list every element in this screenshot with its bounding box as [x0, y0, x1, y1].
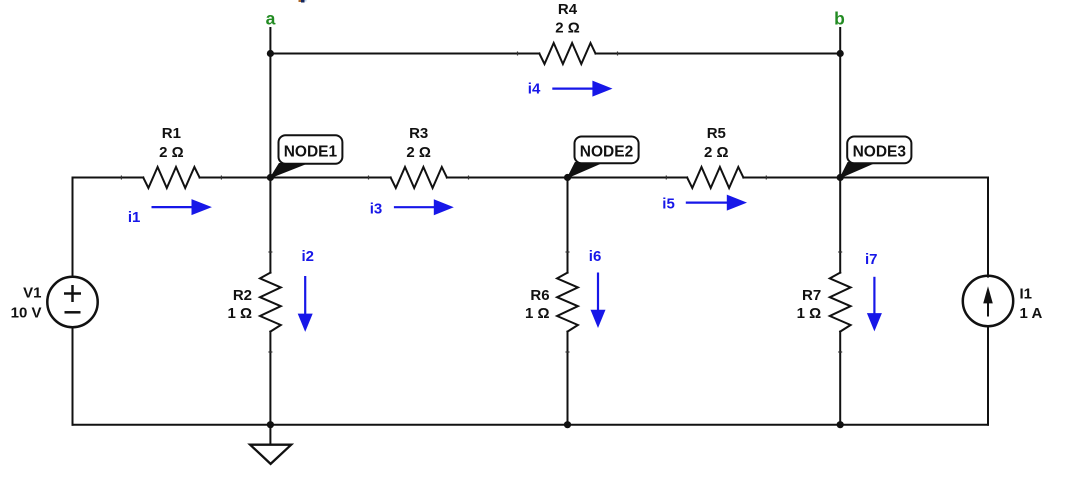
svg-text:R1: R1	[162, 125, 181, 142]
wire: right branch down to I1	[987, 178, 989, 277]
junction node a	[267, 50, 274, 57]
wire: main line left	[73, 177, 144, 179]
resistor R2	[260, 273, 281, 332]
wire: b stub	[839, 28, 841, 54]
svg-text:i1: i1	[128, 209, 141, 226]
cursor fragment top edge	[299, 0, 302, 2]
current arrow i1	[128, 199, 212, 226]
junction bottom NODE2 branch	[564, 421, 571, 428]
junction bottom ground	[267, 421, 274, 428]
svg-text:2 Ω: 2 Ω	[704, 144, 729, 161]
wire: R6 to bottom rail	[567, 332, 569, 425]
resistor R4	[539, 43, 595, 64]
svg-text:a: a	[266, 9, 276, 29]
current source I1	[963, 276, 1013, 326]
svg-text:R4: R4	[558, 1, 578, 18]
wire: R2 to bottom rail	[269, 332, 271, 425]
svg-text:1 A: 1 A	[1020, 305, 1043, 322]
voltage source V1	[47, 277, 97, 327]
NODE2 callout	[568, 163, 603, 178]
resistor R1	[143, 167, 199, 188]
svg-text:V1: V1	[23, 285, 41, 302]
svg-text:b: b	[834, 9, 845, 29]
junction node b	[837, 50, 844, 57]
svg-text:i5: i5	[662, 196, 675, 213]
svg-text:I1: I1	[1020, 286, 1033, 303]
current arrow i7	[865, 251, 882, 331]
wire: top left segment a to R4	[270, 53, 539, 55]
wire: R7 to bottom rail	[839, 332, 841, 425]
wire: V1 bottom to bottom rail	[72, 327, 74, 424]
wire: NODE1 down to R2	[269, 178, 271, 273]
wire: ground stub	[269, 425, 271, 445]
svg-text:1 Ω: 1 Ω	[525, 305, 550, 322]
NODE1 callout	[270, 164, 306, 178]
wire: a down to NODE1	[269, 54, 271, 178]
wire: bottom rail	[73, 424, 989, 426]
current arrow i4	[528, 81, 613, 98]
wire: top right segment R4 to b	[596, 53, 841, 55]
wire: R5 to NODE3 and right corner	[743, 177, 988, 179]
svg-text:R5: R5	[707, 125, 726, 142]
junction bottom NODE3 branch	[837, 421, 844, 428]
svg-text:2 Ω: 2 Ω	[555, 20, 580, 37]
svg-text:10 V: 10 V	[11, 305, 42, 322]
wire: NODE2 down to R6	[567, 178, 569, 273]
svg-text:NODE3: NODE3	[853, 144, 907, 161]
wire: node a stub	[269, 28, 271, 54]
resistor R7	[830, 273, 851, 332]
wire: left branch down to V1	[72, 178, 74, 277]
ground	[250, 445, 291, 464]
NODE3 callout	[840, 163, 875, 178]
current arrow i2	[298, 248, 314, 332]
svg-text:R3: R3	[409, 125, 428, 142]
svg-text:2 Ω: 2 Ω	[406, 144, 431, 161]
junction NODE2	[564, 174, 571, 181]
junction NODE3	[837, 174, 844, 181]
svg-text:i3: i3	[370, 201, 383, 218]
svg-text:R7: R7	[802, 287, 821, 304]
terminal tick marks	[121, 52, 842, 353]
svg-text:NODE1: NODE1	[284, 144, 338, 161]
svg-text:NODE2: NODE2	[580, 144, 633, 161]
svg-text:i2: i2	[302, 248, 315, 265]
current arrow i3	[370, 199, 454, 217]
wire: NODE3 down to R7	[839, 178, 841, 273]
current arrow i5	[662, 195, 747, 213]
wire: I1 bottom to bottom rail	[987, 327, 989, 424]
svg-text:R6: R6	[530, 287, 549, 304]
resistor R3	[391, 167, 447, 188]
resistor R5	[687, 167, 743, 188]
wire: R3 to NODE2 then to R5	[447, 177, 687, 179]
wire: R1 to NODE1	[200, 177, 391, 179]
resistor R6	[557, 273, 578, 332]
junction NODE1	[267, 174, 274, 181]
wire: b down to NODE3	[839, 54, 841, 178]
svg-text:1 Ω: 1 Ω	[797, 305, 822, 322]
svg-text:2 Ω: 2 Ω	[159, 144, 184, 161]
svg-text:1 Ω: 1 Ω	[227, 305, 252, 322]
svg-text:i4: i4	[528, 81, 541, 98]
svg-text:R2: R2	[233, 287, 252, 304]
svg-text:i6: i6	[589, 248, 602, 265]
current arrow i6	[589, 248, 606, 328]
svg-text:i7: i7	[865, 251, 878, 268]
